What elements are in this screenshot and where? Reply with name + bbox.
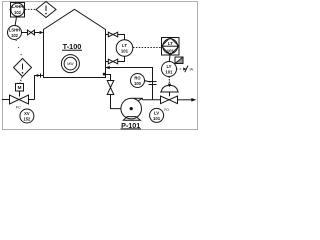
instrument bubble LV-101 [150,108,164,122]
svg-text:RO: RO [134,76,141,81]
wire RO-100 to orifice [144,81,151,83]
feed pipe valve to riser [29,99,35,101]
wire bottom tap to LT-101 [118,56,125,61]
wire valve to tank with arrow [35,31,44,34]
discharge pipe pump to valve [131,97,142,99]
text LY 101 [165,64,173,75]
signal link LAHH-102 to interlock diamond [25,8,36,10]
text P-101 [121,121,141,130]
svg-text:LSHH: LSHH [9,28,20,33]
svg-text:101: 101 [167,49,175,54]
node dot right of LAHH box [23,9,25,11]
svg-text:M: M [18,85,22,90]
text XV 152 [23,111,31,121]
signal link LY-101 to control valve actuator [168,77,171,88]
tank T-100 shell [44,9,106,77]
top level tap pipe [106,34,109,36]
signal link diamond 2 to motor actuator [20,77,22,84]
wire PLC to LY-101 [168,55,171,62]
feed pipe from border to valve [2,99,10,101]
suction isolation valve (vertical) [107,81,114,95]
svg-text:FO: FO [164,108,169,112]
suction pipe to valve [106,75,111,81]
text LV 101 [153,110,161,120]
text LAHH 102 [12,4,23,15]
valve on LSHH tap [28,30,35,35]
control valve body LV-101 [161,96,178,104]
junction dot at pump center [130,107,133,110]
diaphragm actuator of LV-101 [160,85,179,96]
text LSHH 102 [9,28,20,38]
valve stem XV-152 [19,91,21,97]
instrument bubble LT-101 [116,40,133,57]
flange tick at tank feed nozzle [40,73,42,77]
suction pipe valve to pump [111,95,132,109]
junction dot on feed line [36,74,38,76]
text T-100 [62,42,82,51]
instrument bubble RO-100 [131,74,145,88]
top tap valve [108,32,117,37]
wire LAHH box to LSHH bubble [15,17,17,26]
svg-text:100: 100 [134,81,142,86]
valve body XV-152 [10,95,29,104]
svg-text:LV: LV [154,110,159,115]
discharge pipe valve to edge with arrow [178,98,197,102]
wire top tap to LT-101 [118,35,125,40]
text LT 101 PLC [167,41,175,54]
svg-text:102: 102 [11,33,19,38]
signal converter box [175,57,183,64]
svg-text:LT: LT [122,43,127,48]
svg-text:152: 152 [23,116,31,121]
instrument air supply IA [177,66,189,73]
svg-text:101: 101 [121,49,129,54]
bottom level tap pipe [106,61,109,63]
svg-text:FC: FC [16,105,21,109]
bottom tap valve [108,59,117,64]
motor actuator M of XV-152 [16,84,24,92]
svg-text:MW: MW [67,62,74,66]
svg-text:IA: IA [190,68,194,72]
PLC function box LT-101 [162,38,180,56]
svg-text:LY: LY [166,64,171,69]
instrument bubble LSHH-102 [8,26,22,40]
drawing frame [3,2,198,130]
signal link LT-101 to PLC [133,47,162,49]
svg-text:102: 102 [14,10,22,15]
interlock diamond 1 [36,2,56,18]
signal link LSHH to interlock diamond 2 [16,40,22,58]
instrument bubble XV-152 [20,109,34,123]
pump P-101 casing [121,98,142,119]
restriction orifice plates [149,82,157,85]
text RO 100 [134,76,142,86]
svg-text:101: 101 [165,70,173,75]
svg-text:101: 101 [153,116,161,121]
instrument bubble LY-101 [162,62,177,77]
recycle arrow into tank [105,66,109,69]
interlock diamond 2 [14,59,32,77]
wire LSHH to valve [22,32,28,34]
instrument box LAHH-102 (shared display) [11,3,25,18]
node dot left of LAHH box [10,9,12,11]
svg-text:LAHH: LAHH [12,4,23,9]
pump base [123,117,140,121]
suction nozzle on tank [103,73,106,76]
recycle pipe riser [106,68,153,100]
agitator circle MW inside tank [61,55,79,73]
text LT 101 bubble [121,43,129,54]
svg-text:LT: LT [168,41,173,46]
feed riser [35,76,44,100]
